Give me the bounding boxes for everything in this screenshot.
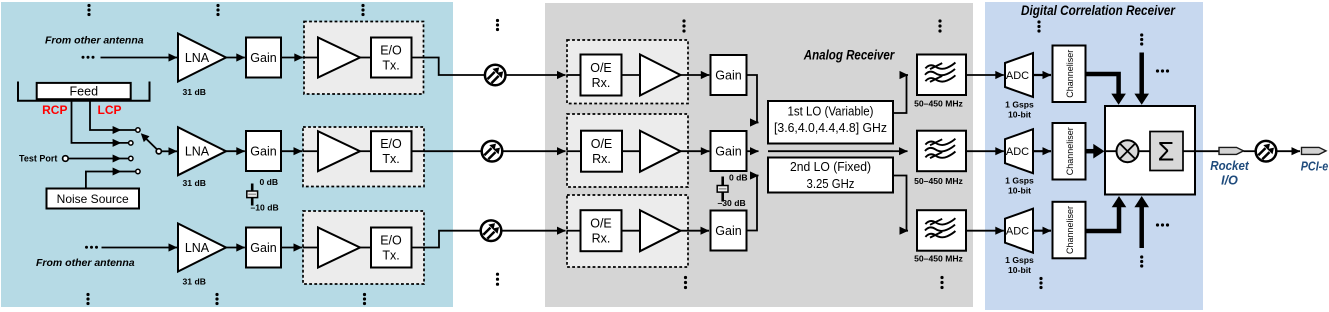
switch contact 2 [129,141,133,145]
wire filter row2 to ADC row2 [966,150,1004,152]
ellipsis dots top-left column 3 [361,4,364,16]
gain adjust slider (row 2) [251,184,254,206]
wire filter row3 to ADC row3 [966,230,1004,232]
svg-text:Rx.: Rx. [592,232,611,246]
svg-text:50–450 MHz: 50–450 MHz [914,99,963,109]
wire LNA to Gain row1 [226,57,245,59]
ellipsis dots gap column top [496,19,499,31]
wire row3 input to LNA [102,247,178,249]
wire Gain to E/O group row1 [281,57,303,59]
svg-text:LNA: LNA [185,145,210,159]
svg-text:[3.6,4.0,4.4,4.8] GHz: [3.6,4.0,4.4,4.8] GHz [774,121,887,135]
noise source block [47,189,140,209]
svg-text:Gain: Gain [250,241,276,255]
svg-text:LNA: LNA [185,241,210,255]
wire RCP to switch contact 2 [72,99,129,143]
ellipsis dots below thick arrow [1140,255,1143,267]
ellipsis dots row 1 input [82,56,95,59]
svg-text:Tx.: Tx. [382,249,399,263]
svg-text:50–450 MHz: 50–450 MHz [914,254,963,264]
svg-text:Test Port: Test Port [19,154,57,164]
wire filter row1 to ADC row1 [966,74,1004,76]
ellipsis dots middle panel top column 1 [682,19,685,32]
amplifier (row 2 E/O driver) [318,131,360,171]
PCI-e connector [1302,147,1327,154]
svg-text:LCP: LCP [98,103,122,117]
ellipsis dots gap column bottom [496,273,499,286]
wire into amp row2 [303,150,319,152]
wire attenuator to O/E group row1 [506,74,566,76]
analog receiver panel (middle, gray) [545,3,973,307]
svg-text:Noise Source: Noise Source [57,192,129,206]
svg-text:Gain: Gain [250,51,276,65]
svg-text:Feed: Feed [70,85,99,99]
svg-text:Tx.: Tx. [382,59,399,73]
ellipsis dots bottom-left column 1 [86,293,89,305]
svg-text:31 dB: 31 dB [183,178,206,188]
optical attenuator (row 3) [481,220,502,241]
wire amp to E/O Tx row2 [360,150,371,152]
integrator sigma block [1150,132,1183,171]
bandpass filter block (row 1) [917,55,966,96]
antenna unit panel (left, light blue) [1,2,453,307]
dashed group box row 2 (E/O transmitter) [303,127,424,187]
svg-text:Gain: Gain [715,69,741,83]
svg-text:Channeliser: Channeliser [1065,206,1075,254]
O/E Rx. block (row 3) [581,210,622,251]
svg-text:–10 dB: –10 dB [251,203,279,213]
multiplier (cross-correlator) [1117,140,1139,162]
wire row2 to filter row2 [893,150,908,152]
ellipsis dots right of bottom bus [1156,223,1169,226]
amplifier (row 3 post O/E) [640,210,681,251]
svg-text:ADC: ADC [1006,146,1029,158]
digital correlation receiver panel (right, light blue) [985,2,1203,310]
ellipsis dots middle panel top column 2 [938,19,941,32]
wire Gain to E/O group row3 [281,247,302,249]
svg-text:1 Gsps: 1 Gsps [1005,176,1034,186]
svg-text:ADC: ADC [1006,70,1029,82]
wire ADC to channeliser row2 [1033,150,1051,152]
svg-text:Channeliser: Channeliser [1065,127,1075,175]
switch contact 3 [129,156,133,160]
wire attenuator to O/E group row2 [503,150,566,152]
gain block (row 1) [246,38,281,78]
gain adjust slider (middle) [721,177,724,202]
thick arrow into correlator bottom (other channelisers) [1139,207,1144,248]
1st LO block [768,101,893,144]
O/E Rx. block (row 1) [581,55,622,96]
wire amp to Gain row3 [681,230,710,232]
svg-text:From other antenna: From other antenna [36,257,135,269]
switch pole [156,149,161,154]
svg-text:10-bit: 10-bit [1008,110,1031,120]
svg-text:3.25 GHz: 3.25 GHz [807,177,855,191]
wire row1 input to LNA [101,57,178,59]
svg-text:1st LO (Variable): 1st LO (Variable) [788,105,874,119]
ellipsis dots right panel bottom [1039,277,1042,289]
amplifier LNA (row 3) [178,224,226,272]
svg-text:O/E: O/E [591,137,613,151]
feed horn bracket [18,82,150,101]
O/E Rx. block (row 2) [581,131,622,172]
wire test port to switch contact 3 [68,158,128,160]
ellipsis dots right of top bus [1156,69,1169,72]
ADC (row 1) [1005,53,1033,97]
channeliser block (row 1) [1053,46,1086,103]
E/O Tx. block (row 2) [371,131,412,171]
svg-text:Rx.: Rx. [592,76,611,90]
amplifier (row 1 E/O driver) [318,38,360,78]
wire amp to Gain row2 [681,150,710,152]
wire O/E to amp row2 [622,150,640,152]
svg-text:–30 dB: –30 dB [718,198,746,208]
gain block (middle row 3) [711,211,747,251]
E/O Tx. block (row 1) [371,38,412,78]
ellipsis dots bottom-left column 3 [363,293,366,305]
switch contact 4 [136,169,140,173]
svg-text:Σ: Σ [1158,137,1175,167]
thick bus channeliser row1 to correlator top [1086,74,1119,94]
E/O Tx. block (row 3) [371,228,412,268]
svg-text:Digital Correlation Receiver: Digital Correlation Receiver [1021,3,1176,18]
wire ADC to channeliser row3 [1033,230,1051,232]
feed block [37,83,131,99]
wire E/O Tx row1 to attenuator (with bend) [412,58,486,76]
gain block (middle row 1) [711,55,747,95]
bandpass filter block (row 3) [917,210,966,251]
dashed group box row 3 (E/O transmitter) [303,211,424,284]
svg-text:ADC: ADC [1006,226,1029,238]
svg-text:Analog Receiver: Analog Receiver [803,48,895,63]
wire E/O Tx row3 to attenuator (with bend) [412,231,482,248]
wire O/E to amp row1 [622,74,641,76]
dashed group box row 1 (O/E receiver) [567,40,688,104]
svg-text:Tx.: Tx. [382,152,399,166]
dashed group box row 2 (O/E receiver) [567,114,688,187]
gain block (row 3) [246,228,281,268]
dashed group box row 1 (E/O transmitter) [304,22,424,95]
wire into amp row3 [303,247,319,249]
wire LNA to Gain row2 [226,150,245,152]
svg-text:From other antenna: From other antenna [45,35,144,47]
amplifier (row 2 post O/E) [640,131,681,172]
wire Gain row2 into LO gap [747,150,759,152]
switch contact 1 [136,128,140,132]
svg-text:RCP: RCP [42,103,67,117]
wire Gain row3 to 2nd LO block [747,176,759,231]
svg-text:10-bit: 10-bit [1008,265,1031,275]
wire noise source to switch contact 4 [86,172,136,189]
switch arm (selects contact 1) [146,139,157,150]
wire amp to E/O Tx row1 [360,57,371,59]
svg-text:10-bit: 10-bit [1008,186,1031,196]
svg-text:O/E: O/E [590,61,612,75]
svg-text:Gain: Gain [250,145,276,159]
svg-text:2nd LO (Fixed): 2nd LO (Fixed) [790,160,871,174]
wire switch pole to LNA row2 [162,150,178,152]
wire into O/E Rx row2 [567,150,582,152]
wire into amp row1 [303,57,318,59]
wire through correlator to Rocket I/O [1105,150,1220,152]
ellipsis dots top-left column 2 [216,4,219,16]
wire row2 between LO blocks [768,150,893,152]
amplifier LNA (row 2) [178,127,226,175]
ellipsis dots middle panel bottom column 2 [940,276,943,289]
wire 2nd LO to filter row3 [893,176,908,231]
gain block (row 2, variable) [246,131,281,171]
svg-text:E/O: E/O [380,44,402,58]
svg-text:O/E: O/E [590,217,612,231]
wire amp to E/O Tx row3 [360,247,371,249]
svg-text:1 Gsps: 1 Gsps [1005,255,1034,265]
amplifier LNA (row 1) [178,34,226,82]
amplifier (row 3 E/O driver) [318,228,360,268]
wire LCP to switch contact 1 [90,99,136,130]
thick bus channeliser row3 to correlator bottom [1086,207,1120,231]
svg-text:PCI-e: PCI-e [1301,160,1329,174]
test port terminal [63,156,69,162]
ADC (row 2) [1005,129,1033,173]
svg-text:LNA: LNA [185,51,210,65]
wire ADC to channeliser row1 [1033,74,1051,76]
wire attenuator to O/E group row3 [502,230,566,232]
optical attenuator (row 1) [485,65,506,86]
ADC (row 3) [1005,209,1033,253]
gain block (middle row 2, variable) [711,131,747,171]
svg-text:31 dB: 31 dB [183,277,206,287]
wire attenuator to PCI-e [1277,150,1300,152]
wire Rocket I/O to attenuator [1244,150,1256,152]
dashed group box row 3 (O/E receiver) [567,195,688,267]
wire Gain row1 to 1st LO block [747,75,759,123]
channeliser block (row 2) [1053,123,1086,180]
wire E/O Tx row2 to attenuator [412,150,483,152]
ellipsis dots middle panel bottom column 1 [684,276,687,289]
wire into O/E Rx row3 [567,230,581,232]
2nd LO block [768,158,893,193]
optical attenuator (row 2) [482,141,503,162]
amplifier (row 1 post O/E) [640,55,681,96]
svg-text:I/O: I/O [1221,174,1238,188]
svg-text:Rx.: Rx. [592,152,611,166]
wire O/E to amp row3 [622,230,641,232]
svg-text:50–450 MHz: 50–450 MHz [914,176,963,186]
svg-text:0 dB: 0 dB [260,177,279,187]
thick bus channeliser row2 to correlator left [1086,149,1095,154]
wire LNA to Gain row3 [226,247,245,249]
svg-text:Rocket: Rocket [1210,159,1249,173]
ellipsis dots row 3 input [85,246,98,249]
svg-text:E/O: E/O [380,137,402,151]
svg-text:1 Gsps: 1 Gsps [1005,100,1034,110]
svg-text:E/O: E/O [380,234,402,248]
channeliser block (row 3) [1053,202,1086,258]
wire 1st LO to filter row1 [893,75,908,113]
thick arrow into correlator top (other channelisers) [1139,53,1144,95]
svg-text:Gain: Gain [715,145,741,159]
correlator block [1105,106,1195,195]
ellipsis dots bottom-left column 2 [215,293,218,305]
ellipsis dots above thick arrow [1140,33,1143,45]
Rocket I/O connector [1219,147,1244,154]
ellipsis dots top-left column 1 [87,4,90,16]
svg-text:Channeliser: Channeliser [1065,50,1075,98]
bandpass filter block (row 2) [917,131,966,172]
wire into O/E Rx row1 [567,74,581,76]
optical attenuator (rocket i/o link) [1256,141,1277,162]
wire amp to Gain row1 [681,74,710,76]
wire Gain to E/O group row2 [281,150,302,152]
svg-text:Gain: Gain [715,224,741,238]
svg-text:31 dB: 31 dB [183,87,206,97]
svg-text:0 dB: 0 dB [729,173,748,183]
ellipsis dots right panel top [1037,20,1040,32]
